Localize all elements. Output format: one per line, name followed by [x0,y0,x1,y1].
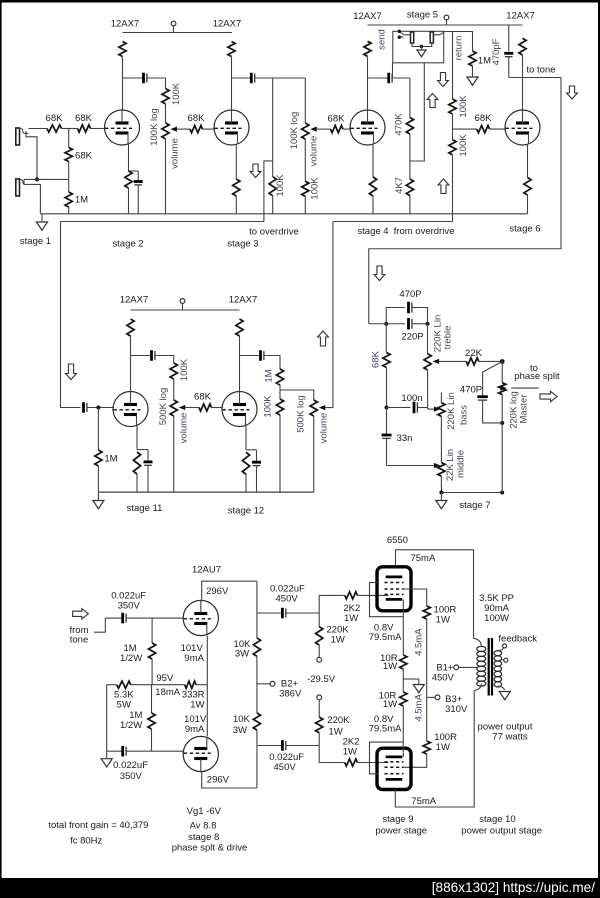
label 333R [182,690,205,701]
svg-text:68K: 68K [328,114,346,125]
ground symbol return 1M [467,66,478,85]
label stage 12 [228,506,264,517]
svg-text:12AX7: 12AX7 [506,11,535,22]
label 0.8V (lower) [374,714,394,725]
label volume (stage11) [179,413,190,444]
wire 33n to middle wiper [387,465,435,467]
label 68K (input b) [75,113,93,124]
wire 10R junction [402,669,404,692]
svg-text:bass: bass [459,405,470,425]
wire master wiper out [511,387,539,389]
capacitor 470P treble bypass [386,302,427,324]
wire tone input row [369,323,405,325]
svg-text:470P: 470P [460,385,482,396]
svg-text:volume: volume [309,136,320,167]
resistor 10K 3W (lower) [253,713,260,730]
wire divider mid [452,114,454,140]
label 3W (lower) [233,725,247,736]
capacitor 0.022uF 450V (upper) [282,608,285,619]
wire upper coupling row [257,612,319,614]
wire pot bottom to bus [313,416,315,492]
wire overdrive feed down [61,222,81,408]
label 3.5K PP [479,593,514,604]
wire 68K to stage12 grid [212,407,223,409]
tube 12AX7 stage 11 [113,392,148,427]
wire 1M to bus [68,207,70,214]
label 90mA [484,603,509,614]
svg-text:Av 8.8: Av 8.8 [190,821,217,832]
label 95V [156,673,174,684]
wire 100K leak to bus [272,196,274,214]
ground bus (middle section) [98,491,313,493]
svg-text:stage 8: stage 8 [188,832,219,843]
svg-text:0.022uF: 0.022uF [113,760,148,771]
wire send stub [392,63,394,78]
label 450V [432,673,455,684]
wire stage2 plate junction to cap [123,77,143,79]
svg-text:77 watts: 77 watts [492,732,528,743]
resistor 1M (stage1 grid leak) [65,192,72,207]
svg-text:100K: 100K [458,95,469,118]
label B3+ [445,694,463,705]
input jack J2 [16,179,28,196]
svg-text:middle: middle [456,450,467,478]
wire stage12 plate junction to cap [240,355,260,357]
svg-text:310V: 310V [445,704,468,715]
svg-text:79.5mA: 79.5mA [369,632,402,643]
svg-text:68K: 68K [475,113,493,124]
label to phase split [514,363,560,382]
label 296V (lower) [207,775,230,786]
wire 68K to 1M [68,162,70,193]
svg-text:470P: 470P [399,289,421,300]
label fc 80Hz [70,836,102,847]
label 12AX7 (stages 2-3 right) [213,19,242,30]
wire wiper to 68K stage4 [317,128,331,130]
node B3+ terminal [427,695,440,700]
svg-text:1M: 1M [478,56,491,67]
svg-text:33n: 33n [397,433,413,444]
potentiometer 22K Lin middle [434,463,445,477]
svg-text:stage 3: stage 3 [227,239,258,250]
wire to overdrive run [61,221,264,223]
label 100K (stage3 vol lower) [310,177,321,200]
resistor 68K (input series a) [47,125,62,132]
svg-text:4.5mA: 4.5mA [414,628,425,656]
resistor 10K 3W (upper) [253,638,260,656]
svg-text:68K: 68K [194,392,212,403]
label 450V (upper out) [276,593,299,604]
svg-text:to tone: to tone [526,65,555,76]
wire to-overdrive step [264,161,273,222]
label 1W (10R upper) [383,661,397,672]
capacitor coupling (stage11 in) [84,402,87,413]
label total front gain [48,820,148,831]
label 2K2 (upper) [343,603,360,614]
label 101V (lower) [184,714,207,725]
label 296V (upper) [206,586,229,597]
arrow signal down (to stage11) [66,364,77,380]
node 470P bottom junction [500,421,504,425]
label 10K (lower) [233,714,251,725]
svg-text:100K: 100K [263,395,274,418]
svg-text:return: return [454,36,465,61]
label power output [478,722,533,733]
tube 12AX7 stage 2 [105,110,140,145]
node J2 junction [35,177,39,181]
label power stage [375,825,427,836]
fx return jack hook [433,32,443,34]
resistor cathode (stage 6) [524,144,531,214]
svg-text:68K: 68K [75,151,93,162]
wire 1M to junction [279,385,281,399]
label 1W (220K upper) [331,635,345,646]
wire upper screen lead [404,589,427,606]
capacitor coupling (stage12 out) [261,350,264,361]
label 5W [117,700,131,711]
svg-text:9mA: 9mA [185,724,205,735]
label 77 watts [492,732,528,743]
svg-text:stage 4: stage 4 [357,226,388,237]
label 79.5mA (lower) [369,724,402,735]
wire lower cathode bar lead [402,742,404,757]
wire divider to 68K stage6 [453,128,477,130]
wire middle bottom [440,476,442,492]
wire from-tone input [94,618,122,632]
ground symbol tone stack [436,493,447,509]
svg-text:220K Lin: 220K Lin [446,392,457,430]
label 1W (100R upper) [436,614,450,625]
wire 100K to bus [279,415,281,492]
resistor 220K 1W (upper) [316,613,323,657]
resistor 100R 1W (lower) [423,741,430,754]
ground symbol ps input [101,751,112,767]
node master bottom junction [500,491,504,495]
label 1W (100R lower) [436,742,450,753]
label 75mA (lower) [411,796,436,807]
svg-text:1M: 1M [264,369,275,382]
resistor 100K plate (stage 12) [236,319,243,336]
label 100K (divider lower) [458,134,469,157]
wire lower cathode lead [402,706,404,742]
wire to volume pot [173,379,175,400]
svg-text:1/2W: 1/2W [120,720,142,731]
wire stage2 plate lead [122,57,124,111]
label 3W (upper) [235,649,249,660]
wire J1 tip to 68K [29,128,48,130]
resistor 4K7 [406,179,413,196]
label volume (stage3) [309,136,320,167]
wire 68K bottom [386,368,388,408]
label feedback [498,634,537,645]
label 1M (stage1) [75,195,88,206]
potentiometer 220K Lin bass [434,392,445,416]
svg-text:350V: 350V [118,601,141,612]
label stage 3 [227,239,258,250]
wire 220P out [412,323,428,325]
svg-text:1W: 1W [328,727,342,738]
wire wiper to 68K [185,407,199,409]
svg-text:100n: 100n [401,393,422,404]
wire from-overdrive run [333,221,453,223]
label 350V (ps lower) [120,771,143,782]
wire stage4 plate lead [367,56,369,110]
svg-text:send: send [377,29,388,50]
border frame [0,0,600,3]
wire 5.3K left down [106,685,108,752]
label 100K (stage11 vol series) [179,358,190,381]
label 350V (ps in) [118,601,141,612]
resistor 100K (return divider upper) [449,99,456,114]
wire pot bottom to bus [173,416,175,492]
resistor 100K plate (stage 11) [127,319,134,336]
label 0.8V (upper) [374,622,394,633]
wire B+ rail right [368,24,523,26]
svg-text:450V: 450V [274,762,297,773]
label stage 2 [112,239,143,250]
label 4K7 [394,177,405,194]
label 0.022uF (ps in) [111,591,146,602]
svg-text:220P: 220P [401,332,423,343]
label 500K log (stage11 vol) [158,388,169,426]
label 1M (stage12 out) [264,369,275,382]
resistor 100R 1W (upper) [423,606,430,619]
label 68K (tone) [371,350,382,368]
fx jack commons [412,43,432,47]
resistor 5.3K 5W [117,681,131,688]
svg-text:4.5mA: 4.5mA [414,693,425,721]
label 1M (lower) [129,710,142,721]
wire return to 1M [453,32,473,52]
wire master pot leads [501,362,503,423]
label 12AX7 (stage 11) [120,295,149,306]
svg-text:1M: 1M [75,195,88,206]
resistor 22K [466,358,479,365]
wire J1 shunt down [26,131,37,179]
label 68K (stage6 grid) [475,113,493,124]
label stage 6 [509,224,540,235]
label 470K [394,113,405,136]
wire master bottom to top [501,423,503,493]
svg-text:95V: 95V [156,673,174,684]
wire bass wiper [428,408,435,410]
resistor 1M (stage12 out) [276,369,283,385]
wire 100K to volume pot [165,104,167,123]
label 10K (upper) [234,639,252,650]
label 10R (upper) [380,653,398,664]
ground symbol secondary [499,692,510,700]
tube 12AU7 lower triode [183,736,218,771]
arrow signal down (stage6 out) [567,86,578,99]
label -29.5V [307,674,336,685]
fx send jack hook [399,32,410,37]
node tone gnd junction [439,491,443,495]
wire cap to stage11 grid [88,407,115,409]
label stage 9 [382,814,413,825]
resistor cathode (stage 3) [233,144,240,214]
arrow signal right (from tone) [73,609,89,619]
wire J2 row [24,179,69,184]
svg-text:stage 1: stage 1 [20,236,51,247]
wire stage11 plate lead [130,336,132,392]
label Vg1 -6V [187,806,222,817]
capacitor 470P (master bypass) [477,362,502,423]
ground symbol fx loop [417,47,426,57]
svg-text:1W: 1W [343,746,357,757]
svg-text:100K log: 100K log [149,108,160,146]
svg-text:9mA: 9mA [184,653,204,664]
label 68K (stage4 grid) [328,114,346,125]
capacitor coupling (stage2 out) [144,73,147,84]
label 33n [397,433,413,444]
svg-text:volume: volume [170,138,181,169]
fx send jack [411,32,414,43]
transformer primary lead top [0,0,1,1]
svg-text:Master: Master [519,394,530,423]
label 68K (stage12 grid) [194,392,212,403]
svg-text:220K: 220K [327,715,350,726]
wire stage3 plate lead [231,57,233,111]
svg-text:stage 6: stage 6 [509,224,540,235]
label 12AU7 [192,565,221,576]
capacitor 0.022uF 350V (ps in) [123,613,126,624]
wire stage3 plate junction to cap [232,77,251,79]
svg-text:stage 5: stage 5 [407,10,438,21]
svg-text:1M: 1M [104,454,117,465]
label send [377,29,388,50]
svg-text:12AX7: 12AX7 [229,295,258,306]
label 220K Lin (treble) [433,315,444,353]
label 100R (upper) [434,605,457,616]
label 1/2W (lower) [120,720,142,731]
input jack J1 [16,128,28,145]
wire 100K to bus [304,196,306,214]
resistor 1M 1/2W (upper) [149,618,156,685]
label 100W [484,613,509,624]
label 450V (lower out) [274,762,297,773]
label 1W (2K2 lower) [343,746,357,757]
resistor+capacitor cathode (stage 12) [242,426,261,493]
wire lower plate 296V [202,772,257,788]
svg-text:power stage: power stage [375,825,427,836]
svg-text:stage 7: stage 7 [459,500,490,511]
label 101V (upper) [181,643,204,654]
node B2+ terminal [257,681,275,686]
label 4.5mA (lower) [414,693,425,721]
fx return jack [430,32,433,43]
wire divider lower to from-overdrive [452,155,454,222]
label 100K log (stage2 vol) [149,108,160,146]
label 2K2 (lower) [343,736,360,747]
tube 12AU7 upper triode [183,600,218,635]
svg-text:450V: 450V [432,673,455,684]
svg-text:phase splt & drive: phase splt & drive [172,843,248,854]
label 1W (333R) [190,700,204,711]
wire branch down x272 [272,78,274,177]
node treble top junction [426,322,430,326]
label 6550 [387,535,408,546]
resistor 100K plate (stage 4) [364,41,371,56]
label 100n [401,393,422,404]
transformer core [489,638,492,696]
wire stage3 signal down to pot [304,78,306,123]
svg-text:68K: 68K [188,113,206,124]
label stage 10 [479,814,515,825]
label Av 8.8 [190,821,217,832]
wire J2 sleeve to ground [29,184,41,213]
arrow signal down (fx) [438,73,449,87]
svg-text:1W: 1W [383,699,397,710]
node fx tap 2 [398,36,401,39]
fx loop box [393,31,444,63]
label 220K log (master) [509,391,520,429]
wire lower cathode [206,685,208,737]
svg-text:from overdrive: from overdrive [394,226,455,237]
wire to tone junction [509,77,561,79]
capacitor 33n [382,408,392,466]
wire treble wiper to 22K [439,360,466,362]
node B1+ terminal [454,665,477,670]
label middle [456,450,467,478]
label 1M (stage11) [104,454,117,465]
svg-text:386V: 386V [279,688,302,699]
svg-text:1/2W: 1/2W [120,653,142,664]
capacitor coupling (stage11 out) [152,350,155,361]
svg-text:100K log: 100K log [289,112,300,150]
svg-text:tone: tone [70,635,89,646]
svg-text:treble: treble [443,326,454,350]
svg-text:68K: 68K [371,350,382,368]
wire wiper up to from-overdrive [325,222,333,408]
resistor+capacitor cathode (stage 2) [125,144,143,214]
svg-text:79.5mA: 79.5mA [369,724,402,735]
label from overdrive [394,226,455,237]
svg-text:stage 2: stage 2 [112,239,143,250]
wire cap to corner [156,356,174,364]
label stage 11 [127,503,163,514]
label 310V [445,704,468,715]
label 5.3K [114,690,134,701]
capacitor 0.022uF 350V (ps lower) [123,746,126,757]
label from tone [70,625,89,646]
svg-text:10K: 10K [233,714,251,725]
label 0.022uF (upper out) [270,584,305,595]
wire treble pot lead [427,324,429,354]
node fx send tap [398,30,401,33]
resistor 68K (tone) [383,324,390,368]
svg-text:volume: volume [319,413,330,444]
node bass row junction [385,406,389,410]
svg-text:1W: 1W [436,742,450,753]
wire node A1 [62,128,78,130]
wire 68K vertical top lead [68,129,70,148]
label 1M (return) [478,56,491,67]
svg-text:100K: 100K [458,134,469,157]
wire wiper to 68K [177,128,190,130]
wire stage4 plate junction to cap [368,77,388,79]
resistor 100K (stage12 out leak) [276,399,283,415]
label 12AX7 (stage 6) [506,11,535,22]
wire cap out right [393,77,410,79]
svg-text:100K: 100K [171,82,182,105]
label 68K (stage3 grid) [188,113,206,124]
node stage11 grid junction [96,406,100,410]
label stage 1 [20,236,51,247]
resistor 68K (grid shunt) [65,148,72,162]
label phase splt and drive [172,843,248,854]
label 75mA (upper) [410,553,435,564]
svg-text:stage 9: stage 9 [382,814,413,825]
